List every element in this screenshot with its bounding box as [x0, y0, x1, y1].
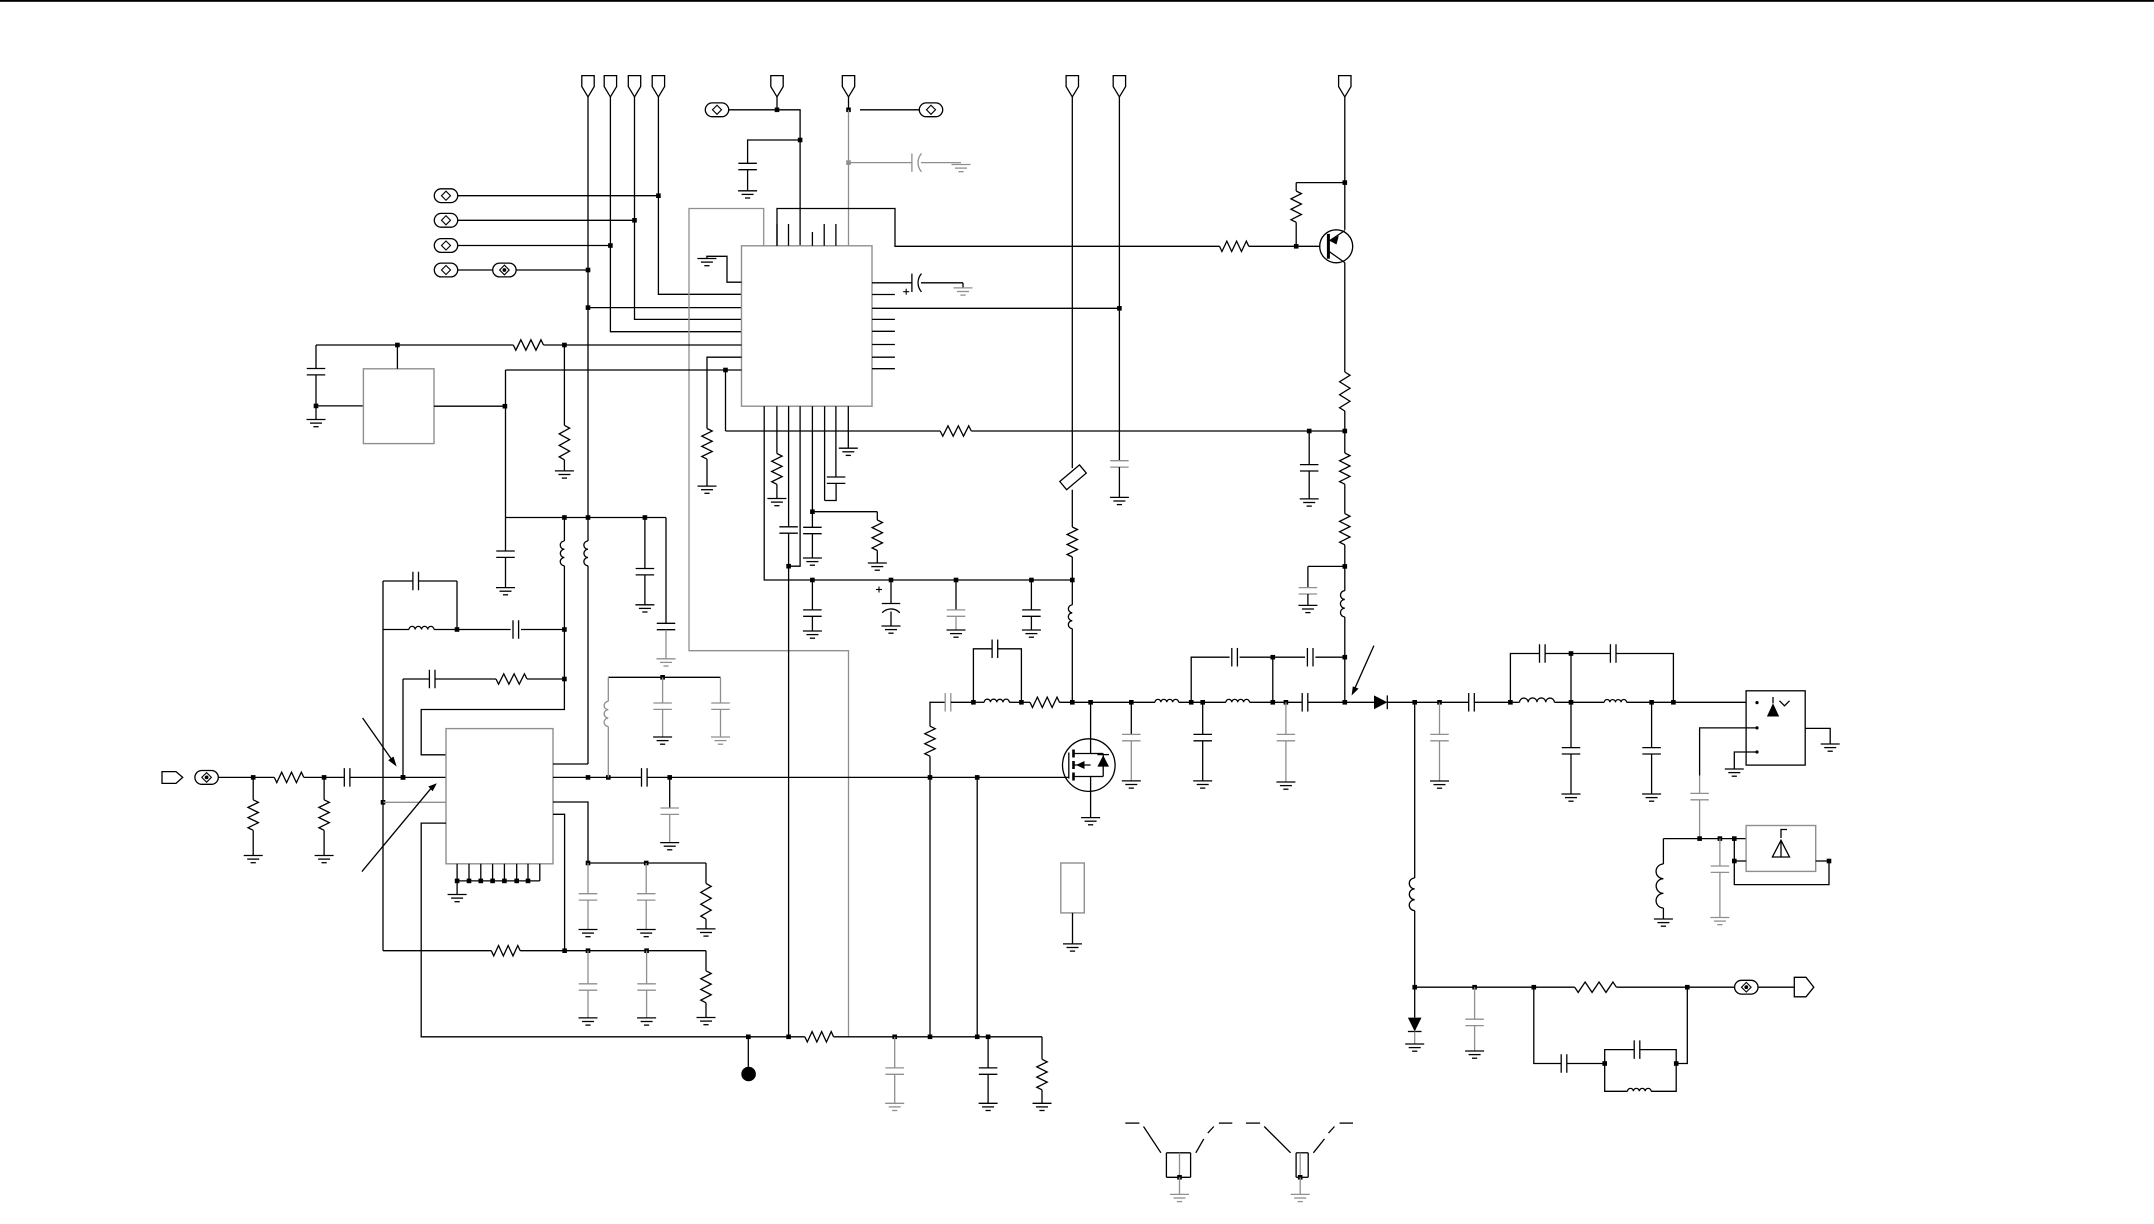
wire — [506, 517, 667, 519]
inductor L10 — [1510, 701, 1519, 703]
wire — [1805, 728, 1830, 744]
wire — [383, 801, 446, 803]
inductor L13 — [1605, 1064, 1628, 1092]
wire — [396, 345, 398, 369]
wire — [824, 406, 826, 500]
capacitor C36 — [1510, 654, 1539, 703]
wire — [516, 269, 588, 271]
connector pin J3 — [628, 76, 640, 97]
capacitor C49 — [894, 1037, 896, 1068]
capacitor C23 — [955, 580, 957, 610]
wire — [1734, 860, 1746, 862]
wire — [1308, 565, 1345, 567]
ground — [555, 470, 574, 472]
ground — [1193, 780, 1212, 782]
ground — [697, 1017, 716, 1019]
ferrite bead FB1 — [1060, 465, 1087, 490]
connector pin J4 — [652, 76, 664, 97]
resistor R3 — [1340, 372, 1350, 411]
wire — [789, 406, 801, 566]
inductor L1 — [1344, 566, 1346, 590]
ground — [1298, 604, 1317, 606]
wire — [1415, 701, 1440, 703]
ground — [698, 485, 717, 487]
inductor L14 — [1662, 839, 1664, 864]
wire — [316, 344, 513, 346]
mounting hole — [747, 1037, 749, 1067]
capacitor C27 — [973, 649, 992, 703]
wire — [729, 109, 777, 111]
ground — [839, 447, 858, 449]
test point TP1 — [493, 263, 516, 277]
wire — [505, 370, 507, 518]
resistor R23 — [1041, 1037, 1043, 1060]
wire — [1344, 97, 1346, 230]
capacitor C8 — [665, 518, 667, 624]
wire — [1734, 839, 1829, 885]
capacitor C30 — [1273, 701, 1302, 703]
capacitor C46 — [645, 863, 647, 894]
capacitor C3 — [1308, 431, 1310, 465]
ground — [579, 1017, 598, 1019]
ground — [1122, 780, 1141, 782]
ground — [803, 630, 822, 632]
connector pin J10 — [1113, 76, 1125, 97]
ground — [868, 562, 887, 564]
wire — [777, 209, 1220, 247]
capacitor C17 — [788, 406, 790, 527]
capacitor C44 — [1719, 839, 1721, 866]
arrow — [362, 786, 433, 872]
diode D1 — [1345, 701, 1374, 703]
wire — [1700, 728, 1758, 776]
wire — [1570, 654, 1572, 703]
connector pin J5 — [771, 76, 783, 97]
ground — [1430, 780, 1449, 782]
capacitor C7 — [644, 518, 646, 569]
wire — [553, 814, 565, 950]
capacitor C16 — [720, 677, 722, 703]
terminal P6 — [919, 103, 942, 117]
inductor L5 — [607, 677, 609, 701]
capacitor C6 — [505, 518, 507, 552]
oscillator X1 — [363, 369, 434, 444]
resistor R1 — [1220, 241, 1249, 251]
capacitor C22 — [890, 580, 892, 604]
wire — [971, 430, 1345, 432]
ground — [660, 842, 679, 844]
terminal P1 — [434, 189, 457, 203]
wire — [1415, 986, 1575, 988]
capacitor C32 — [1191, 657, 1229, 702]
terminal P2 — [434, 213, 457, 227]
wire — [847, 406, 849, 448]
IC U4 — [1746, 826, 1816, 872]
wire — [588, 307, 742, 309]
capacitor C12 — [343, 768, 345, 787]
ground — [637, 1017, 656, 1019]
resistor R11 — [252, 777, 254, 799]
resistor R7 — [513, 340, 543, 350]
resistor R12 — [323, 777, 325, 799]
IC U2 — [446, 729, 553, 864]
wire — [544, 344, 742, 346]
capacitor C11 — [403, 678, 429, 680]
ground — [1022, 629, 1041, 631]
ground — [947, 629, 966, 631]
ground — [637, 929, 656, 931]
capacitor C21 — [811, 580, 813, 610]
IC U2 bottom pins — [456, 864, 458, 881]
ground — [244, 855, 263, 857]
ground — [882, 625, 901, 627]
wire — [1344, 411, 1346, 431]
wire — [777, 110, 800, 246]
capacitor C1 — [738, 162, 757, 164]
wire — [218, 776, 274, 778]
resistor R20 — [491, 946, 520, 956]
wire — [458, 195, 659, 197]
capacitor C40 — [1474, 987, 1476, 1019]
capacitor C25 — [1118, 308, 1120, 460]
wire — [725, 370, 727, 431]
capacitor C26 — [944, 693, 946, 712]
capacitor C13 — [641, 768, 643, 787]
wire — [748, 140, 801, 163]
ground — [1405, 1043, 1424, 1045]
resistor R10 — [274, 772, 304, 782]
border bar — [0, 0, 2154, 2]
wire — [506, 369, 742, 371]
capacitor C50 — [987, 1037, 989, 1068]
wire — [402, 679, 404, 777]
wire — [316, 405, 363, 407]
input pin J8 — [162, 772, 183, 784]
wire — [860, 109, 919, 111]
capacitor C29 — [1202, 702, 1204, 734]
capacitor C28 — [1130, 702, 1132, 734]
inductor L3 — [587, 518, 589, 542]
capacitor C48 — [646, 951, 648, 984]
capacitor C19 — [835, 406, 837, 477]
inductor L12 — [1414, 702, 1416, 878]
wire — [764, 406, 1072, 580]
wire — [434, 405, 505, 407]
wire — [707, 256, 742, 282]
wire — [635, 97, 742, 320]
resistor R9 — [496, 674, 527, 684]
capacitor C33 — [1273, 656, 1305, 658]
capacitor C18 — [811, 512, 813, 528]
ground — [1081, 817, 1100, 819]
capacitor C9 — [382, 581, 384, 630]
resistor R19 — [705, 863, 707, 883]
wire — [707, 357, 742, 428]
inductor L6 — [1071, 580, 1073, 605]
capacitor C10 — [457, 629, 511, 631]
wire — [658, 97, 741, 294]
ground — [1110, 496, 1129, 498]
wire — [520, 950, 706, 952]
inductor L9 — [1203, 701, 1226, 703]
arrow — [363, 718, 395, 764]
wire — [811, 406, 813, 512]
transistor Q3 (phantom) — [1125, 1122, 1139, 1124]
ground — [767, 498, 786, 500]
ground — [952, 164, 971, 166]
ground — [1642, 793, 1661, 795]
wire — [587, 97, 589, 518]
capacitor C20 — [872, 282, 912, 284]
capacitor C5 — [315, 345, 317, 369]
wire — [608, 676, 720, 678]
wire — [458, 245, 611, 247]
wire — [553, 776, 642, 778]
ground — [1072, 913, 1074, 944]
terminal P3 — [434, 239, 457, 253]
resistor R15 — [1071, 490, 1073, 527]
wire — [929, 777, 931, 1036]
transistor Q4 (phantom) — [1246, 1122, 1260, 1124]
capacitor C38 — [1570, 702, 1572, 747]
wire — [848, 110, 850, 246]
wire — [976, 777, 978, 1036]
inductor L4 — [383, 629, 409, 631]
capacitor C41 — [1534, 987, 1561, 1063]
resistor R5 — [1344, 431, 1346, 453]
capacitor C43 — [1699, 776, 1701, 794]
diode D2 — [1414, 987, 1416, 1017]
wire — [421, 823, 748, 1037]
ground — [979, 1102, 998, 1104]
wire — [872, 307, 1119, 309]
wire — [812, 511, 877, 513]
capacitor C24 — [1030, 580, 1032, 610]
IC U1 — [742, 246, 873, 406]
ground — [1033, 1102, 1052, 1104]
output pin J11 — [1794, 977, 1814, 997]
terminal P4 — [434, 263, 457, 277]
wire — [553, 802, 588, 863]
wire — [1344, 263, 1346, 372]
wire — [1616, 986, 1734, 988]
ground — [1465, 1050, 1484, 1052]
ground — [1821, 743, 1840, 745]
wire — [610, 97, 741, 332]
capacitor C15 — [662, 677, 664, 703]
connector pin J2 — [604, 76, 616, 97]
wire — [1091, 701, 1132, 703]
resistor R4 — [940, 426, 971, 436]
ground — [496, 587, 515, 589]
resistor R22 — [805, 1032, 834, 1042]
ground — [315, 855, 334, 857]
wire — [458, 269, 493, 271]
ground — [657, 658, 676, 660]
capacitor C42 — [1605, 1050, 1635, 1064]
ground — [635, 604, 654, 606]
ground — [697, 928, 716, 930]
transistor Q1 — [1320, 230, 1353, 263]
wire shield net — [689, 209, 849, 1037]
ground — [1562, 793, 1581, 795]
resonator Y1 — [1061, 863, 1085, 913]
ground — [1654, 918, 1673, 920]
capacitor C14 — [669, 777, 671, 808]
ground — [1725, 768, 1744, 770]
wire — [588, 862, 706, 864]
IC U1 top pin stubs — [776, 224, 778, 246]
resistor R2 — [1295, 183, 1297, 191]
ground — [711, 736, 730, 738]
connector pin J6 — [842, 76, 854, 97]
transistor Q2 — [1063, 739, 1116, 792]
ground — [962, 283, 964, 288]
wire — [527, 678, 564, 680]
wire — [1118, 97, 1120, 308]
connector pin J7 — [1339, 76, 1351, 97]
wire — [553, 763, 588, 765]
resistor R24 — [702, 429, 712, 460]
resistor R17 — [1021, 701, 1030, 703]
wire — [382, 630, 384, 803]
ground — [738, 190, 757, 192]
resistor R21 — [705, 951, 707, 971]
capacitor C34 — [1439, 702, 1441, 734]
capacitor C31 — [1285, 702, 1287, 734]
terminal P5 — [705, 103, 728, 117]
resistor R14 — [876, 512, 878, 520]
IC U1 right pin stubs — [872, 294, 895, 296]
resistor R8 — [563, 345, 565, 425]
wire — [834, 1036, 1042, 1038]
resistor R6 — [1344, 484, 1346, 513]
ground — [315, 406, 317, 420]
resistor R18 — [1575, 982, 1617, 992]
wire — [1296, 182, 1345, 184]
capacitor C4 — [1307, 566, 1309, 587]
wire — [747, 170, 749, 191]
terminal P8 — [1735, 980, 1758, 994]
capacitor C47 — [587, 951, 589, 984]
ground — [697, 258, 716, 260]
wire — [457, 880, 540, 882]
ground — [579, 929, 598, 931]
wire — [458, 219, 635, 221]
wire — [1071, 97, 1073, 468]
resistor R16 — [929, 702, 932, 726]
inductor L8 — [1131, 701, 1155, 703]
wire — [1734, 752, 1758, 769]
capacitor C2 — [849, 162, 912, 164]
ground — [1300, 498, 1319, 500]
connector pin J1 — [582, 76, 594, 97]
IC U3 — [1746, 691, 1805, 765]
capacitor C39 — [1651, 702, 1653, 747]
capacitor C45 — [587, 863, 589, 894]
wire — [383, 950, 491, 952]
ground — [885, 1102, 904, 1104]
resistor R13 — [776, 406, 778, 453]
terminal P7 — [195, 771, 218, 785]
ground — [456, 881, 458, 895]
arrow — [1354, 646, 1374, 690]
wire — [304, 776, 345, 778]
wire — [1758, 986, 1794, 988]
inductor L7 — [973, 701, 984, 703]
capacitor C35 — [1440, 701, 1469, 703]
inductor L2 — [563, 518, 565, 542]
wire — [382, 802, 384, 950]
inductor L11 — [1571, 701, 1604, 703]
ground — [1710, 917, 1729, 919]
ground — [803, 557, 822, 559]
wire — [748, 1036, 805, 1038]
ground — [1276, 781, 1295, 783]
wire — [421, 630, 564, 755]
wire — [931, 701, 946, 703]
wire — [1676, 987, 1687, 1063]
wire — [1249, 245, 1321, 247]
wire — [1663, 838, 1746, 840]
connector pin J9 — [1066, 76, 1078, 97]
ground — [653, 736, 672, 738]
capacitor C37 — [1571, 653, 1610, 655]
